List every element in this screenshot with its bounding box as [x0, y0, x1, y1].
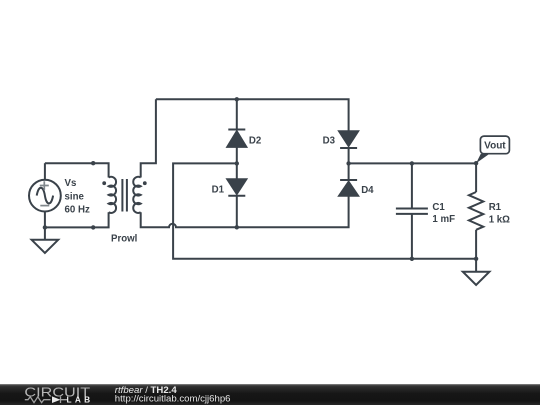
- voltage source VS circle: [29, 180, 61, 212]
- wire primary bottom to Vs: [45, 212, 109, 227]
- diode D2: [227, 130, 246, 164]
- node dot D3-D4 midpoint: [346, 161, 350, 165]
- svg-text:60 Hz: 60 Hz: [65, 204, 90, 215]
- svg-text:C1: C1: [432, 202, 445, 213]
- ground right: [463, 272, 490, 285]
- node dot Vout: [474, 161, 478, 165]
- diode D1: [227, 163, 246, 227]
- svg-text:D2: D2: [249, 136, 261, 147]
- Vout flag box: [480, 136, 509, 154]
- svg-text:D1: D1: [212, 184, 225, 195]
- node dot primary bottom terminal: [91, 225, 95, 229]
- svg-text:LAB: LAB: [67, 395, 94, 405]
- wire top rail: [156, 99, 349, 131]
- svg-text:1 mF: 1 mF: [432, 214, 455, 225]
- svg-text:Vout: Vout: [484, 141, 506, 152]
- footer bar: [0, 384, 540, 405]
- svg-text:Prowl: Prowl: [111, 234, 137, 245]
- wire R1 bottom lead: [475, 230, 477, 259]
- svg-text:D4: D4: [361, 185, 374, 196]
- wire ground stub right: [475, 259, 477, 272]
- capacitor C1: [396, 209, 428, 214]
- wire top-left to transformer primary: [45, 163, 109, 177]
- minus sign: [40, 205, 49, 207]
- node dot primary top terminal: [91, 161, 95, 165]
- wire Vs top lead: [44, 163, 46, 180]
- CircuitLab logo diode triangle: [52, 396, 61, 403]
- transformer core: [122, 179, 127, 212]
- node dot D1-D2 midpoint: [235, 161, 239, 165]
- svg-text:1 kΩ: 1 kΩ: [489, 214, 510, 225]
- node dot Vs-ground junction: [43, 225, 47, 229]
- ground left: [32, 240, 59, 253]
- node dot bottom rail junction: [235, 225, 239, 229]
- wire Vs bottom lead: [44, 212, 46, 228]
- label C1 value: [432, 202, 455, 225]
- wire bridge mid-left to bottom rail: [173, 163, 476, 258]
- node dot R1 bottom junction: [474, 257, 478, 261]
- plus sign: [40, 181, 49, 190]
- wire bridge left drop: [236, 99, 238, 129]
- wire secondary bottom rail with hop: [141, 196, 349, 228]
- wire C1 bottom lead: [411, 214, 413, 259]
- wire ground stub left: [44, 227, 46, 239]
- wire C1 top lead: [411, 163, 413, 208]
- svg-text:sine: sine: [65, 191, 85, 202]
- transformer phase dot primary: [102, 181, 106, 185]
- svg-text:R1: R1: [489, 202, 502, 213]
- svg-text:D3: D3: [323, 136, 336, 147]
- node dot C1 bottom junction: [410, 257, 414, 261]
- node dot top rail junction: [235, 97, 239, 101]
- transformer T primary coil: [109, 177, 116, 213]
- wire secondary top to bridge top: [141, 99, 156, 177]
- label R1 value: [489, 202, 510, 226]
- CircuitLab logo resistor-diode line: [25, 396, 68, 403]
- label Vs value: [65, 178, 90, 215]
- transformer secondary coil: [133, 177, 140, 213]
- node dot C1 top junction: [410, 161, 414, 165]
- diode D4: [339, 163, 358, 195]
- resistor R1: [469, 192, 483, 230]
- Vout flag pointer: [476, 154, 489, 164]
- wire bridge mid-right to Vout node: [349, 162, 477, 164]
- wire R1 top lead: [475, 163, 477, 192]
- svg-text:Vs: Vs: [65, 178, 77, 189]
- transformer phase dot secondary: [143, 181, 147, 185]
- diode D3: [339, 131, 358, 163]
- svg-text:http://circuitlab.com/cjj6hp6: http://circuitlab.com/cjj6hp6: [115, 394, 231, 405]
